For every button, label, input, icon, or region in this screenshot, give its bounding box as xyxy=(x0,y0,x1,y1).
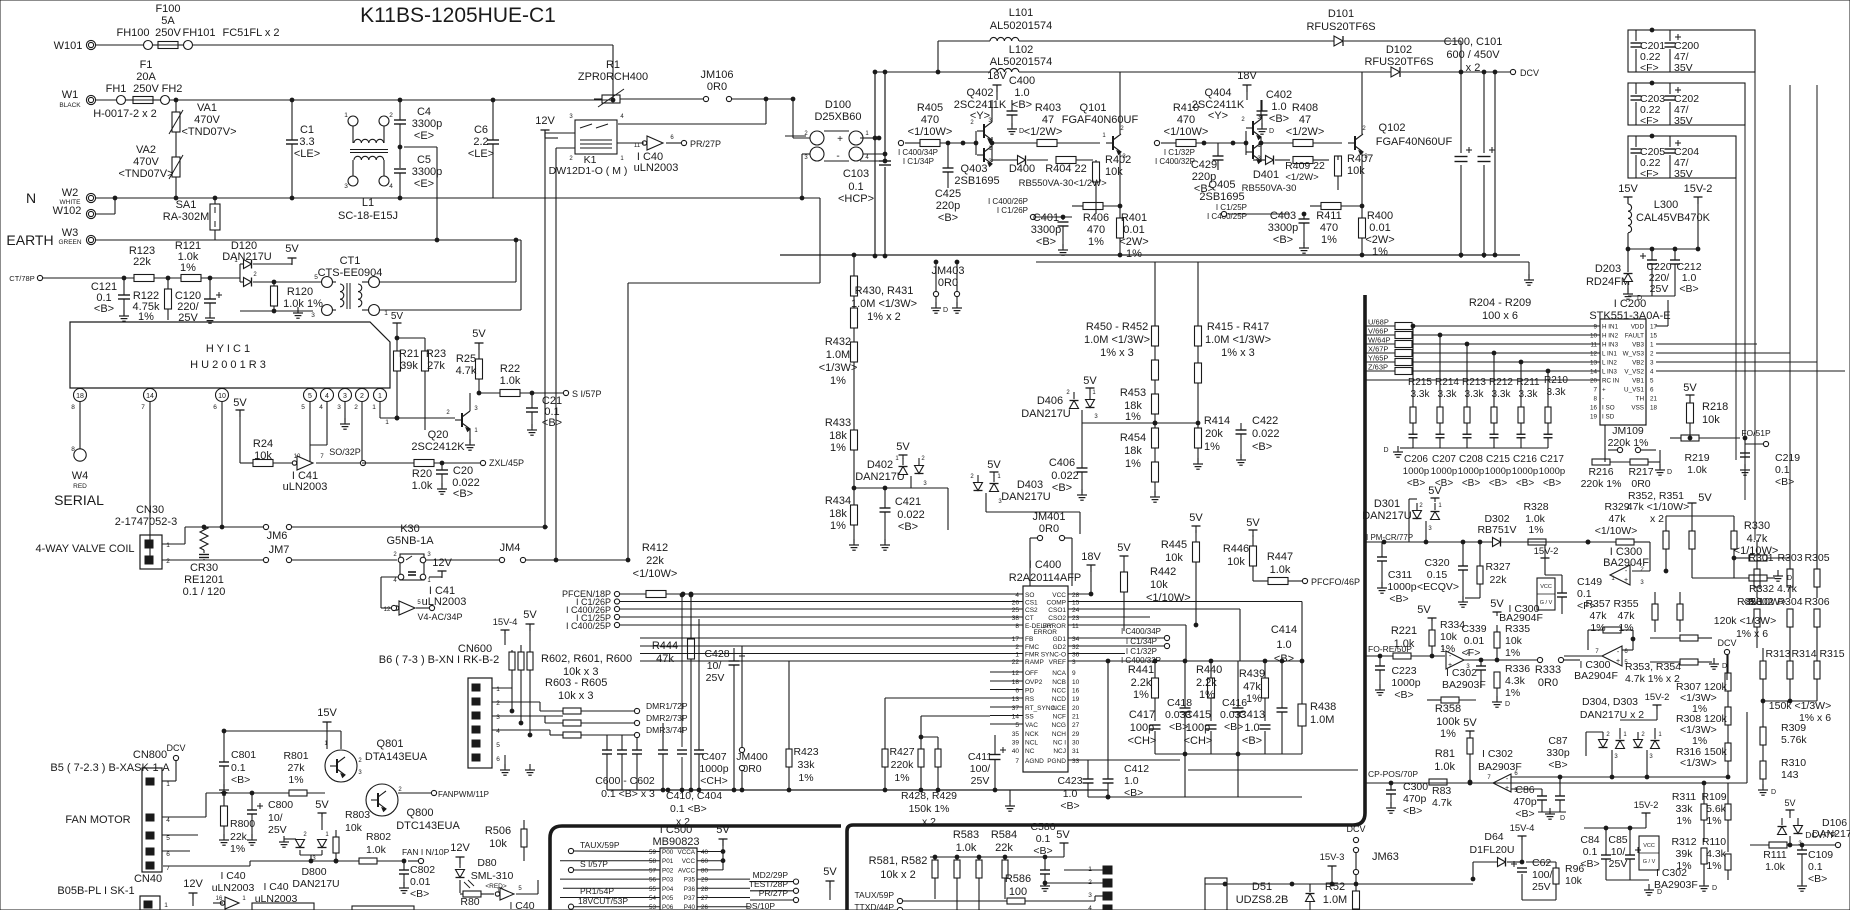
svg-text:AVCC: AVCC xyxy=(678,867,695,874)
svg-text:C800: C800 xyxy=(268,799,293,811)
svg-text:C406: C406 xyxy=(1049,457,1075,469)
svg-text:I C1/32P: I C1/32P xyxy=(1126,647,1157,656)
svg-text:DAN217U: DAN217U xyxy=(855,471,905,483)
HYIC1 pin 18 xyxy=(71,388,86,449)
svg-text:D406: D406 xyxy=(1037,395,1063,407)
resistor R446 xyxy=(1223,517,1261,581)
label H-0017-2 x 2 xyxy=(93,108,157,120)
svg-text:35V: 35V xyxy=(1674,168,1693,180)
svg-text:L IN2: L IN2 xyxy=(1602,360,1617,367)
capacitor C103 xyxy=(838,168,874,205)
svg-text:G / V: G / V xyxy=(1540,600,1553,606)
svg-text:R358: R358 xyxy=(1435,703,1461,715)
svg-text:7: 7 xyxy=(1593,387,1597,394)
inductor L101 xyxy=(938,7,1334,41)
svg-text:10k: 10k xyxy=(1165,552,1183,564)
svg-text:35: 35 xyxy=(1012,731,1020,738)
svg-text:R408: R408 xyxy=(1292,102,1318,114)
capacitor C422 xyxy=(1236,415,1280,465)
svg-text:H IN2: H IN2 xyxy=(1602,333,1619,340)
svg-text:<LE>: <LE> xyxy=(294,148,320,160)
label 4-WAY VALVE COIL xyxy=(35,543,134,555)
svg-text:C320: C320 xyxy=(1424,557,1449,569)
resistor R358 xyxy=(1427,697,1476,740)
svg-text:1000p: 1000p xyxy=(699,763,728,775)
svg-text:5V: 5V xyxy=(391,311,404,322)
svg-text:R212: R212 xyxy=(1489,377,1513,388)
svg-text:3: 3 xyxy=(337,404,341,411)
relay K1 xyxy=(549,114,628,177)
svg-text:C416: C416 xyxy=(1222,697,1247,709)
resistor R22 xyxy=(479,363,563,397)
wire opamp in5 xyxy=(1511,788,1542,790)
svg-text:R400: R400 xyxy=(1367,210,1393,222)
svg-text:P00: P00 xyxy=(662,849,674,856)
svg-text:2: 2 xyxy=(1650,351,1654,358)
svg-text:C86: C86 xyxy=(1515,784,1534,796)
jumper JM4 xyxy=(499,542,629,563)
svg-text:W3: W3 xyxy=(62,227,79,239)
svg-text:0R0: 0R0 xyxy=(1039,523,1059,535)
svg-text:1% x 3: 1% x 3 xyxy=(1100,347,1134,359)
svg-text:6: 6 xyxy=(496,756,500,763)
svg-text:5V: 5V xyxy=(896,441,910,453)
svg-text:1.0k 1%: 1.0k 1% xyxy=(283,298,323,310)
capacitor C801 xyxy=(219,731,256,795)
diode D203 xyxy=(1586,249,1642,302)
transistor Q404 xyxy=(1192,87,1262,139)
svg-text:<B>: <B> xyxy=(1403,805,1422,817)
svg-text:R441: R441 xyxy=(1128,664,1154,676)
svg-text:15V-2: 15V-2 xyxy=(1634,800,1659,811)
surge arrester SA1 xyxy=(163,198,220,240)
port DCV JM63 xyxy=(1346,824,1398,886)
svg-text:27k: 27k xyxy=(427,360,445,372)
svg-text:RED: RED xyxy=(73,483,87,490)
wire STK outputs xyxy=(1656,344,1845,371)
svg-text:5V: 5V xyxy=(315,799,329,811)
svg-text:K30: K30 xyxy=(400,523,420,535)
power 18V IC400 xyxy=(1068,551,1101,596)
svg-text:P05: P05 xyxy=(662,895,674,902)
svg-text:I C1/34P: I C1/34P xyxy=(1126,637,1157,646)
svg-text:27: 27 xyxy=(1072,722,1080,729)
resistor R221 xyxy=(1391,625,1417,650)
transistor Q102 xyxy=(1348,72,1452,214)
svg-text:S I/57P: S I/57P xyxy=(572,389,602,399)
svg-text:4: 4 xyxy=(389,183,393,190)
svg-text:3300p: 3300p xyxy=(1268,222,1299,234)
svg-text:R81: R81 xyxy=(1435,748,1455,760)
resistor R334 xyxy=(1429,619,1465,656)
svg-text:<B>: <B> xyxy=(1036,236,1056,248)
svg-text:W2: W2 xyxy=(62,187,79,199)
resistor R406 xyxy=(1072,203,1122,249)
capacitor C20 xyxy=(436,463,480,500)
svg-text:SC-18-E15J: SC-18-E15J xyxy=(338,210,398,222)
svg-text:CN800: CN800 xyxy=(133,749,167,761)
svg-text:15V-2: 15V-2 xyxy=(1534,546,1559,557)
capacitor C428 xyxy=(704,648,745,792)
svg-text:VDD: VDD xyxy=(1631,324,1645,331)
svg-text:1: 1 xyxy=(166,542,170,549)
power 5V D301 xyxy=(1428,485,1442,502)
svg-text:C413: C413 xyxy=(1239,709,1265,721)
svg-text:D403: D403 xyxy=(1017,479,1043,491)
svg-text:W/64P: W/64P xyxy=(1368,336,1391,345)
power 5V D120 xyxy=(253,243,299,265)
svg-text:25V: 25V xyxy=(971,775,990,787)
led D80 xyxy=(456,857,514,893)
resistor R352 R351 parts xyxy=(1663,507,1695,578)
svg-text:<1/10W>: <1/10W> xyxy=(1146,592,1191,604)
svg-text:4: 4 xyxy=(325,393,329,400)
svg-text:CR30: CR30 xyxy=(190,562,218,574)
svg-text:C402: C402 xyxy=(1266,89,1292,101)
svg-text:1%: 1% xyxy=(1246,693,1262,705)
svg-text:1: 1 xyxy=(166,781,170,788)
transistor Q800 xyxy=(366,784,460,832)
svg-text:28: 28 xyxy=(1072,592,1080,599)
power 15V-2 C84 xyxy=(1634,800,1659,828)
svg-text:R404 22: R404 22 xyxy=(1045,163,1087,175)
svg-text:15V-2: 15V-2 xyxy=(1684,183,1713,195)
svg-text:1.0k: 1.0k xyxy=(956,842,977,854)
svg-text:GD2: GD2 xyxy=(1053,644,1067,651)
resistor R441 xyxy=(1128,659,1159,721)
svg-text:I C1/32P: I C1/32P xyxy=(1164,148,1195,157)
svg-text:R414: R414 xyxy=(1204,415,1230,427)
svg-text:TAUX/59P: TAUX/59P xyxy=(580,840,620,850)
power 5V R81 xyxy=(1463,717,1477,738)
terminal W3 xyxy=(58,227,95,246)
svg-text:FAN I N/10P: FAN I N/10P xyxy=(402,847,450,857)
svg-text:100p: 100p xyxy=(1186,722,1210,734)
svg-text:15V-2: 15V-2 xyxy=(1645,692,1670,703)
svg-text:C403: C403 xyxy=(1270,210,1296,222)
svg-text:C84: C84 xyxy=(1580,834,1599,846)
svg-text:11: 11 xyxy=(1072,623,1079,630)
resistor R447 xyxy=(1253,551,1302,585)
svg-text:1000p: 1000p xyxy=(1485,466,1511,477)
label RB550VA30 a xyxy=(1019,178,1107,189)
resistor R409 xyxy=(1285,157,1329,184)
svg-text:FGAF40N60UF: FGAF40N60UF xyxy=(1062,114,1139,126)
svg-text:N: N xyxy=(26,190,36,206)
svg-text:uLN2003: uLN2003 xyxy=(634,162,679,174)
resistor R311 xyxy=(1672,781,1707,842)
svg-text:ZPR0RCH400: ZPR0RCH400 xyxy=(578,71,648,83)
svg-text:W101: W101 xyxy=(54,40,83,52)
svg-text:<HCP>: <HCP> xyxy=(838,193,874,205)
svg-text:C103: C103 xyxy=(843,168,869,180)
svg-text:25V: 25V xyxy=(268,824,287,836)
svg-text:C217: C217 xyxy=(1540,454,1564,465)
RC leg C208 xyxy=(1463,342,1472,448)
svg-text:STK551-3A0A-E: STK551-3A0A-E xyxy=(1589,310,1670,322)
svg-text:34: 34 xyxy=(1072,636,1080,643)
port W/64P xyxy=(1366,336,1600,348)
power 15V-2 R328 xyxy=(1534,545,1559,575)
svg-text:1000p: 1000p xyxy=(1431,466,1457,477)
relay K30 xyxy=(381,523,499,584)
buffer IC41a xyxy=(283,454,360,493)
svg-text:5V: 5V xyxy=(472,328,486,340)
wire rc top rail xyxy=(1108,660,1302,662)
svg-text:Z/63P: Z/63P xyxy=(1368,363,1388,372)
resistor R332 xyxy=(1692,570,1798,595)
svg-text:1.0: 1.0 xyxy=(1244,722,1259,734)
svg-text:COMP: COMP xyxy=(1047,600,1067,607)
svg-text:47k: 47k xyxy=(1609,513,1627,525)
svg-text:NCH: NCH xyxy=(1052,731,1066,738)
wire rc link lines xyxy=(1188,769,1358,771)
svg-text:29: 29 xyxy=(701,877,709,884)
svg-text:<1/10W>: <1/10W> xyxy=(633,568,678,580)
svg-text:VCC: VCC xyxy=(1052,592,1066,599)
svg-text:C6: C6 xyxy=(474,124,488,136)
svg-text:220k: 220k xyxy=(891,759,915,771)
svg-text:RE1201: RE1201 xyxy=(184,574,224,586)
svg-text:R603 - R605: R603 - R605 xyxy=(545,677,607,689)
jumper JM401 xyxy=(1030,511,1072,586)
svg-text:Q102: Q102 xyxy=(1379,122,1406,134)
svg-text:BA2903F: BA2903F xyxy=(1442,679,1486,691)
svg-text:FMR: FMR xyxy=(1025,652,1039,659)
svg-text:5V: 5V xyxy=(233,397,247,409)
port DCV CN800 xyxy=(162,743,186,781)
svg-text:5V: 5V xyxy=(1490,598,1504,610)
svg-text:4.7k: 4.7k xyxy=(1432,797,1453,809)
svg-text:4: 4 xyxy=(1015,592,1019,599)
svg-text:R406: R406 xyxy=(1083,212,1109,224)
svg-text:3300p: 3300p xyxy=(412,118,443,130)
svg-text:NCF: NCF xyxy=(1053,714,1066,721)
capacitor C407 xyxy=(694,619,729,790)
resistor R439 xyxy=(1239,659,1269,721)
svg-text:5V: 5V xyxy=(1189,512,1203,524)
connector CN800 xyxy=(50,749,170,872)
resistor R23 xyxy=(397,338,446,430)
label IC302 bottom xyxy=(1644,867,1698,896)
wire fan bottom row xyxy=(163,859,359,866)
svg-text:330p: 330p xyxy=(1546,747,1570,759)
fuse F100 labels xyxy=(116,3,279,39)
svg-text:18: 18 xyxy=(1650,405,1658,412)
svg-text:CAL45VB470K: CAL45VB470K xyxy=(1636,212,1711,224)
svg-text:1.0k: 1.0k xyxy=(1765,861,1786,873)
jumper JM109 xyxy=(1605,425,1656,462)
svg-text:<B>: <B> xyxy=(1407,478,1426,489)
svg-text:470: 470 xyxy=(1320,222,1338,234)
svg-text:0.1 <B>: 0.1 <B> xyxy=(670,803,707,815)
svg-text:<B>: <B> xyxy=(1060,800,1079,812)
svg-text:47k <1/10W>: 47k <1/10W> xyxy=(1627,501,1689,513)
svg-text:CT1: CT1 xyxy=(340,255,361,267)
svg-text:D1FL20U: D1FL20U xyxy=(1470,844,1515,856)
svg-text:1%: 1% xyxy=(288,774,303,786)
port V4-AC/34P xyxy=(417,612,462,622)
svg-text:59: 59 xyxy=(649,849,657,856)
resistor R801 xyxy=(250,750,325,796)
svg-text:VCC: VCC xyxy=(682,858,696,865)
capacitor C120 xyxy=(175,278,222,324)
port FO/51P xyxy=(1741,428,1771,447)
svg-text:R219: R219 xyxy=(1684,452,1709,464)
svg-text:C5: C5 xyxy=(417,154,431,166)
power 15V-2 D304 xyxy=(1620,692,1669,720)
wire IC400 left pin 6 xyxy=(990,689,1023,691)
svg-text:I SD: I SD xyxy=(1602,414,1615,421)
capacitor C100 C101 xyxy=(1444,36,1503,258)
svg-text:4: 4 xyxy=(1650,369,1654,376)
wire IC400 PGND xyxy=(1068,759,1180,761)
varistor VA2 xyxy=(118,144,183,200)
svg-text:<CH>: <CH> xyxy=(700,775,727,787)
svg-text:L102: L102 xyxy=(1009,44,1033,56)
diode D800 xyxy=(279,832,340,890)
svg-text:R800: R800 xyxy=(230,818,255,830)
svg-text:0.022: 0.022 xyxy=(897,509,925,521)
resistor R427 xyxy=(882,698,990,790)
HYIC1 pin 10 xyxy=(213,389,228,528)
resistor R453 xyxy=(1120,387,1159,462)
svg-text:12: 12 xyxy=(1590,351,1598,358)
svg-text:1.0: 1.0 xyxy=(1014,87,1029,99)
svg-text:11: 11 xyxy=(634,143,641,149)
wire IC400 GD1 xyxy=(1068,627,1170,641)
svg-text:K11BS-1205HUE-C1: K11BS-1205HUE-C1 xyxy=(360,4,556,27)
resistor R81 xyxy=(1434,738,1473,784)
svg-text:15V: 15V xyxy=(1618,183,1638,195)
svg-text:<1/10W>: <1/10W> xyxy=(1164,126,1209,138)
svg-text:16: 16 xyxy=(216,896,223,902)
svg-text:R306: R306 xyxy=(1804,596,1829,608)
svg-text:2: 2 xyxy=(360,393,364,400)
label TTXD/44P xyxy=(854,902,902,910)
label RB550VA30 b xyxy=(1242,183,1297,194)
svg-text:5V: 5V xyxy=(823,866,837,878)
svg-text:R403: R403 xyxy=(1035,102,1061,114)
svg-text:55: 55 xyxy=(649,886,657,893)
svg-text:L IN3: L IN3 xyxy=(1602,369,1617,376)
port IC1/25P xyxy=(576,613,620,623)
svg-text:R21: R21 xyxy=(399,348,419,360)
svg-text:10: 10 xyxy=(1590,333,1598,340)
svg-text:DAN217U x 2: DAN217U x 2 xyxy=(1580,709,1644,721)
resistor R586 xyxy=(903,873,1095,904)
RC leg C207 xyxy=(1436,333,1445,448)
terminal W101 xyxy=(54,40,96,52)
svg-text:18k: 18k xyxy=(829,508,847,520)
svg-text:VA1: VA1 xyxy=(197,102,217,114)
svg-text:58: 58 xyxy=(649,858,657,865)
wire rc pgnd rail xyxy=(1088,795,1302,799)
svg-text:VCCA: VCCA xyxy=(678,849,696,856)
svg-text:C418: C418 xyxy=(1167,697,1192,709)
svg-text:TTXD/44P: TTXD/44P xyxy=(854,902,894,910)
capacitor C311 xyxy=(1377,542,1417,605)
wire IC400 left pin 37 xyxy=(990,706,1023,708)
svg-text:<B>: <B> xyxy=(1012,99,1032,111)
svg-text:1000p: 1000p xyxy=(1539,466,1565,477)
capacitor C6 xyxy=(468,100,499,198)
svg-text:1% x 2: 1% x 2 xyxy=(867,311,901,323)
svg-text:12V: 12V xyxy=(535,115,555,127)
resistor R450 R451 R452 xyxy=(1084,262,1159,428)
svg-text:CS2: CS2 xyxy=(1025,607,1038,614)
svg-text:PFCFO/46P: PFCFO/46P xyxy=(1311,577,1360,587)
power 5V IC300a xyxy=(1490,598,1504,616)
svg-text:JM6: JM6 xyxy=(267,530,288,542)
svg-text:6: 6 xyxy=(213,404,217,411)
resistor CR30 xyxy=(183,526,226,598)
svg-text:SA1: SA1 xyxy=(176,199,197,211)
resistor R308 xyxy=(1676,707,1731,747)
svg-text:<B>: <B> xyxy=(231,774,250,786)
svg-text:1%: 1% xyxy=(830,442,846,454)
IC U400 R2A20114AFP xyxy=(1009,559,1082,772)
svg-text:R444: R444 xyxy=(652,640,678,652)
capacitor C121 xyxy=(91,278,130,321)
svg-text:1: 1 xyxy=(384,310,388,317)
power 5V R25 xyxy=(472,328,486,350)
svg-text:21: 21 xyxy=(1072,714,1080,721)
capacitor C212 xyxy=(1670,249,1702,296)
svg-text:R301: R301 xyxy=(1748,552,1773,564)
wire R406 row xyxy=(1036,215,1072,220)
IC U500 MB90823 xyxy=(652,824,699,910)
svg-text:D: D xyxy=(943,307,948,314)
svg-text:I C40: I C40 xyxy=(263,881,288,893)
wire IC400 left pin 12 xyxy=(990,671,1023,673)
resistor R1 xyxy=(578,59,648,107)
svg-text:-: - xyxy=(836,151,839,162)
svg-text:R401: R401 xyxy=(1121,212,1147,224)
svg-text:<CH>: <CH> xyxy=(1128,735,1157,747)
power 15V-4 D64 xyxy=(1510,823,1535,862)
svg-text:NCK: NCK xyxy=(1025,731,1039,738)
wire IC400 left pin 8 xyxy=(640,624,1023,626)
IC box bottom partial b xyxy=(352,906,414,910)
capacitor C416 xyxy=(1220,661,1247,797)
wire port row5 xyxy=(620,624,640,626)
resistor R111 xyxy=(1750,842,1835,873)
svg-text:<F>: <F> xyxy=(1640,168,1659,180)
port DMR1/72P xyxy=(634,701,688,714)
svg-text:D: D xyxy=(1722,663,1727,670)
svg-text:5V: 5V xyxy=(1463,717,1477,729)
port PR/27P xyxy=(681,139,721,149)
svg-text:RB550VA-30: RB550VA-30 xyxy=(1019,178,1074,189)
svg-text:R438: R438 xyxy=(1310,701,1336,713)
wire JM403 drop xyxy=(931,265,965,314)
svg-text:8: 8 xyxy=(71,446,75,453)
svg-text:R506: R506 xyxy=(485,825,511,837)
svg-text:<B>: <B> xyxy=(1242,735,1262,747)
resistor R331 row xyxy=(1732,555,1790,561)
capacitor C403 xyxy=(1228,210,1310,253)
svg-text:3: 3 xyxy=(1088,892,1092,899)
svg-text:18k: 18k xyxy=(1124,445,1142,457)
svg-text:1000p: 1000p xyxy=(1458,466,1484,477)
diode D101 xyxy=(1306,8,1461,46)
fuse holder FH100 xyxy=(144,41,193,50)
svg-text:16: 16 xyxy=(1072,688,1080,695)
svg-text:DAN217U: DAN217U xyxy=(292,878,339,890)
svg-text:Q101: Q101 xyxy=(1080,102,1107,114)
svg-text:1%: 1% xyxy=(1372,246,1388,258)
